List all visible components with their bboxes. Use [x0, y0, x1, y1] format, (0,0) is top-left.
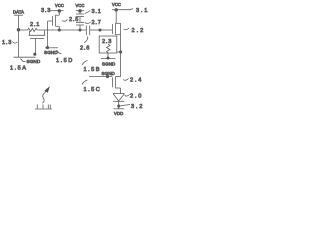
- label 3.1 with leader: [85, 9, 102, 15]
- label 2.2 with leader: [124, 28, 146, 34]
- svg-text:SGND: SGND: [27, 59, 41, 64]
- wire Q2 gate to ground: [47, 21, 49, 48]
- ground SGND bar box: [101, 57, 116, 59]
- power VCC3: [112, 2, 121, 11]
- svg-text:2.1: 2.1: [30, 22, 40, 28]
- node junction dot Q1 source: [33, 53, 36, 56]
- capacitor C1: [76, 11, 84, 22]
- svg-text:SGND: SGND: [102, 62, 116, 67]
- svg-text:2.7: 2.7: [92, 20, 102, 26]
- node junction dot drain mid: [119, 50, 122, 53]
- node junction dot bus at C2: [78, 28, 81, 31]
- label 3.3 with leader: [41, 8, 55, 14]
- annotation ticks 11B: [35, 105, 52, 110]
- node junction dot bus at Q2: [58, 28, 61, 31]
- label 15C with leader: [82, 80, 101, 93]
- power VCC1: [55, 3, 64, 12]
- svg-text:1.5A: 1.5A: [10, 66, 28, 72]
- ground SGND bar mid: [45, 47, 58, 49]
- wire bus to Q3 gate: [100, 29, 112, 31]
- capacitor C3 series: [86, 26, 100, 36]
- svg-text:SGND: SGND: [102, 71, 116, 76]
- diode D1: [113, 94, 125, 106]
- svg-text:3.1: 3.1: [136, 8, 149, 14]
- svg-text:2.3: 2.3: [102, 39, 112, 45]
- svg-text:1.5D: 1.5D: [56, 58, 74, 64]
- svg-text:VCC: VCC: [55, 3, 64, 8]
- transistor Q2: [48, 11, 60, 30]
- svg-text:3.1: 3.1: [92, 9, 102, 15]
- capacitor C2: [76, 22, 84, 30]
- svg-text:1.5B: 1.5B: [84, 67, 102, 73]
- label 2.7 with leader: [85, 20, 102, 26]
- node junction dot box ground: [106, 56, 109, 59]
- transistor Q1: [29, 30, 46, 54]
- svg-text:2.2: 2.2: [132, 28, 146, 34]
- svg-text:1.3: 1.3: [2, 40, 12, 46]
- node junction dot diode out: [117, 104, 120, 107]
- power VDD terminal: [114, 106, 125, 116]
- svg-text:2.6: 2.6: [80, 46, 90, 52]
- node junction dot on DATA line: [17, 28, 21, 32]
- wire box to ground: [107, 53, 109, 58]
- node junction dot gate rail: [106, 75, 109, 78]
- power VCC2: [76, 3, 85, 12]
- ground SGND bar left: [14, 56, 36, 58]
- label SGND left: [21, 59, 41, 64]
- wire bus horizontal: [45, 29, 87, 31]
- svg-text:3.2: 3.2: [131, 104, 144, 110]
- transistor Q3: [112, 10, 120, 35]
- svg-text:VCC: VCC: [76, 3, 85, 8]
- label 1.3 with leader: [2, 40, 18, 46]
- wire Q3 drain down: [120, 35, 122, 77]
- svg-text:SGND: SGND: [44, 50, 58, 55]
- svg-text:DATA: DATA: [13, 10, 24, 15]
- node junction dot Q2 gate ground: [46, 46, 49, 49]
- svg-text:VDD: VDD: [114, 111, 123, 116]
- transistor Q4: [112, 76, 120, 93]
- wire box corner to drain: [117, 51, 121, 53]
- label 2.6 with leader: [80, 37, 90, 52]
- wire DATA vertical: [18, 15, 20, 57]
- label 15B with leader: [82, 61, 101, 74]
- svg-text:1.5C: 1.5C: [84, 87, 102, 93]
- label SGND mid: [44, 50, 62, 55]
- annotation arrow: [42, 86, 50, 103]
- label 2.4 with leader: [123, 78, 143, 84]
- svg-text:3.3: 3.3: [41, 8, 51, 14]
- node junction dot bus right: [98, 28, 101, 31]
- label 3.1 right with leader: [121, 8, 150, 14]
- wire Q4 gate rail: [89, 76, 112, 78]
- label 3.2 with leader: [121, 104, 145, 110]
- svg-text:2.4: 2.4: [130, 78, 143, 84]
- label 2.5 with leader: [62, 17, 79, 23]
- node DATA terminal: [13, 10, 24, 16]
- resistor R2 box 2.3: [99, 36, 117, 53]
- svg-text:VCC: VCC: [112, 2, 121, 7]
- label 2.0 with leader: [125, 94, 144, 100]
- resistor R1 value 2.1: [19, 22, 45, 32]
- svg-text:2.0: 2.0: [130, 94, 143, 100]
